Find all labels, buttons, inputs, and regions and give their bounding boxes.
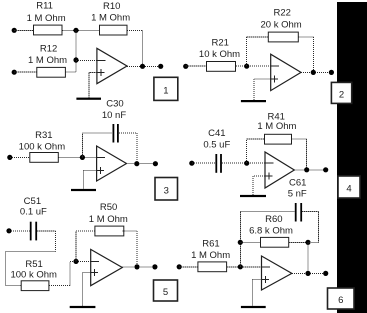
svg-text:6.8 k Ohm: 6.8 k Ohm <box>249 225 293 236</box>
wire down to R51 <box>4 251 6 285</box>
node circuit-5 output terminal <box>152 264 157 269</box>
node U4 inverting junction <box>244 161 249 166</box>
svg-text:100 k Ohm: 100 k Ohm <box>10 269 57 280</box>
node label box 4 <box>338 176 360 198</box>
node label box 3 <box>155 178 178 201</box>
svg-text:0.5 uF: 0.5 uF <box>203 140 230 151</box>
node circuit-3 input terminal <box>7 155 12 160</box>
svg-text:6: 6 <box>338 295 343 306</box>
node feedback right junction <box>305 240 310 245</box>
wire feedback up <box>81 133 83 158</box>
wire U6 output <box>292 272 326 274</box>
svg-text:C61: C61 <box>289 178 306 189</box>
wire input B to R12 <box>14 71 37 73</box>
wire feedback down to output <box>136 133 138 164</box>
node U5 output/feedback junction <box>134 264 139 269</box>
wire up to inverting line <box>69 261 71 285</box>
svg-text:R10: R10 <box>103 1 120 12</box>
wire left <box>5 250 55 252</box>
wire U4 output <box>294 169 325 171</box>
op-amp U2 <box>271 54 301 90</box>
black sidebar panel <box>337 2 367 313</box>
svg-text:R12: R12 <box>40 44 57 55</box>
svg-text:100 k Ohm: 100 k Ohm <box>19 142 66 153</box>
wire feedback up <box>75 231 77 262</box>
op-amp U6 <box>262 256 292 290</box>
resistor R60 6.8 k Ohm (feedback) <box>249 214 293 247</box>
svg-text:1 M Ohm: 1 M Ohm <box>257 121 296 132</box>
wire R61 to U6 inverting input <box>227 266 262 268</box>
node U4 output/feedback junction <box>304 167 309 172</box>
wire C61 branch right <box>302 211 319 213</box>
capacitor C30 10 nF (feedback) <box>102 98 126 142</box>
node U3 output/feedback junction <box>134 161 139 166</box>
node junction R11/R12/feedback <box>73 28 78 33</box>
resistor R21 10 k Ohm <box>199 38 240 72</box>
wire to R51 <box>5 285 21 287</box>
wire C30 to corner <box>119 132 137 134</box>
ground at U5 + input <box>70 272 96 308</box>
resistor R12 1 M Ohm <box>28 44 67 78</box>
node circuit-3 output terminal <box>153 161 158 166</box>
wire R31 to U3 inverting input <box>58 156 96 158</box>
node circuit-4 output terminal <box>323 167 328 172</box>
wire U3 + input to ground <box>84 170 97 172</box>
node circuit-1 input A terminal <box>12 28 17 33</box>
node summing junction to inverting input <box>73 57 78 62</box>
wire R60 right <box>289 241 308 243</box>
wire U5 output <box>122 266 155 268</box>
resistor R51 100 k Ohm <box>10 259 57 291</box>
wire to R41 <box>247 138 265 140</box>
node U6 inverting junction <box>238 264 243 269</box>
ground at U3 + input <box>71 171 96 192</box>
svg-text:1 M Ohm: 1 M Ohm <box>89 214 128 225</box>
node label box 6 <box>328 288 355 309</box>
svg-text:C41: C41 <box>208 128 225 139</box>
node U6 output/feedback junction <box>305 271 310 276</box>
svg-text:20 k Ohm: 20 k Ohm <box>261 19 302 30</box>
node label box 5 <box>154 280 178 301</box>
wire U2 output <box>301 71 331 73</box>
svg-text:1 M Ohm: 1 M Ohm <box>91 12 130 23</box>
svg-text:R11: R11 <box>36 1 53 12</box>
svg-text:5 nF: 5 nF <box>288 188 307 199</box>
wire summing vertical <box>75 30 77 72</box>
wire to U1 inverting input <box>76 60 97 62</box>
wire input to C51 <box>9 230 30 232</box>
wire R50 to corner <box>123 230 138 232</box>
node circuit-4 input terminal <box>189 161 194 166</box>
wire U6 + input to ground <box>252 278 261 280</box>
node U2 inverting junction <box>244 64 249 69</box>
svg-text:C30: C30 <box>106 98 123 109</box>
node circuit-6 input terminal <box>177 264 182 269</box>
wire C41 to U4 inverting input <box>222 162 265 164</box>
svg-text:10 nF: 10 nF <box>102 110 126 121</box>
ground at U2 + input <box>241 79 266 102</box>
node label box 2 <box>331 82 351 103</box>
wire R51 right <box>49 285 70 287</box>
wire R41 to corner <box>292 138 307 140</box>
node U1 output/feedback junction <box>140 64 145 69</box>
node U3 inverting junction <box>80 155 85 160</box>
node circuit-2 input terminal <box>183 64 188 69</box>
op-amp U1 <box>97 48 127 83</box>
wire C51 right <box>37 230 56 232</box>
wire to C30 <box>82 132 112 134</box>
capacitor C41 0.5 uF <box>203 128 230 173</box>
wire R11 to R10 <box>63 29 100 31</box>
wire down <box>318 212 320 243</box>
ground at U6 + input <box>241 279 266 308</box>
wire R22 to corner <box>298 36 313 38</box>
wire to R60 <box>240 241 260 243</box>
wire U1 output <box>127 65 161 67</box>
wire U1 + input to ground <box>89 72 97 74</box>
wire to R50 <box>76 230 95 232</box>
wire input to R31 <box>10 156 30 158</box>
wire feedback up <box>246 139 248 163</box>
wire U4 + input to ground <box>253 175 265 177</box>
op-amp U5 <box>91 249 123 285</box>
svg-text:R21: R21 <box>211 38 228 49</box>
svg-text:1: 1 <box>163 85 168 96</box>
ground at U4 + input <box>240 176 266 197</box>
svg-text:4: 4 <box>346 184 351 195</box>
wire C61 branch left <box>240 211 294 213</box>
wire to feedback junction <box>308 241 319 243</box>
wire R21 to U2 inverting input <box>236 65 271 67</box>
resistor R11 1 M Ohm <box>27 1 66 35</box>
resistor R10 1 M Ohm (feedback) <box>91 1 130 35</box>
capacitor C51 0.1 uF <box>20 196 47 240</box>
svg-text:5: 5 <box>163 287 168 298</box>
wire input A to R11 <box>14 29 33 31</box>
op-amp U4 <box>265 152 294 188</box>
wire input to R61 <box>179 266 198 268</box>
resistor R61 1 M Ohm <box>191 239 230 272</box>
resistor R31 100 k Ohm <box>19 130 66 162</box>
node feedback left junction <box>238 240 243 245</box>
svg-text:0.1 uF: 0.1 uF <box>20 206 47 217</box>
svg-text:1 M Ohm: 1 M Ohm <box>191 250 230 261</box>
wire feedback down to output <box>312 37 314 72</box>
svg-text:1 M Ohm: 1 M Ohm <box>27 13 66 24</box>
ground at U1 + input <box>76 73 101 100</box>
node circuit-6 output terminal <box>323 271 328 276</box>
node circuit-1 output terminal <box>158 64 163 69</box>
wire feedback down to output <box>306 139 308 170</box>
wire U5 + input to ground <box>83 271 91 273</box>
node circuit-5 input terminal <box>6 228 11 233</box>
svg-text:R31: R31 <box>35 130 52 141</box>
wire to R22 <box>247 36 269 38</box>
wire down <box>55 231 57 252</box>
wire to U5 inverting input <box>70 260 91 262</box>
wire feedback down to output <box>142 30 144 66</box>
wire R12 to summing line <box>65 71 76 73</box>
wire input to R21 <box>186 65 206 67</box>
svg-text:R60: R60 <box>265 214 282 225</box>
svg-text:2: 2 <box>339 89 344 100</box>
svg-text:R61: R61 <box>202 239 219 250</box>
resistor R41 1 M Ohm (feedback) <box>257 112 296 144</box>
svg-text:10 k Ohm: 10 k Ohm <box>199 49 240 60</box>
wire feedback down to output <box>136 231 138 267</box>
svg-text:R51: R51 <box>25 259 42 270</box>
wire U2 + input to ground <box>254 78 271 80</box>
wire R10 to output corner <box>127 29 143 31</box>
svg-text:R50: R50 <box>100 202 117 213</box>
op-amp U3 <box>97 146 127 181</box>
node U2 output/feedback junction <box>311 70 316 75</box>
resistor R50 1 M Ohm (feedback) <box>89 202 128 236</box>
capacitor C61 5 nF (feedback) <box>288 178 307 222</box>
wire U3 output <box>127 163 156 165</box>
resistor R22 20 k Ohm (feedback) <box>261 8 302 42</box>
wire feedback down to output <box>307 242 309 273</box>
svg-text:C51: C51 <box>24 196 41 207</box>
node circuit-2 output terminal <box>329 70 334 75</box>
node label box 1 <box>154 77 178 100</box>
wire feedback up <box>246 37 248 66</box>
svg-text:1 M Ohm: 1 M Ohm <box>28 55 67 66</box>
svg-text:3: 3 <box>164 185 169 196</box>
wire feedback vertical <box>239 212 241 267</box>
wire input to C41 <box>192 162 216 164</box>
node circuit-1 input B terminal <box>12 70 17 75</box>
node U5 inverting junction <box>73 259 78 264</box>
svg-text:R22: R22 <box>273 8 290 19</box>
